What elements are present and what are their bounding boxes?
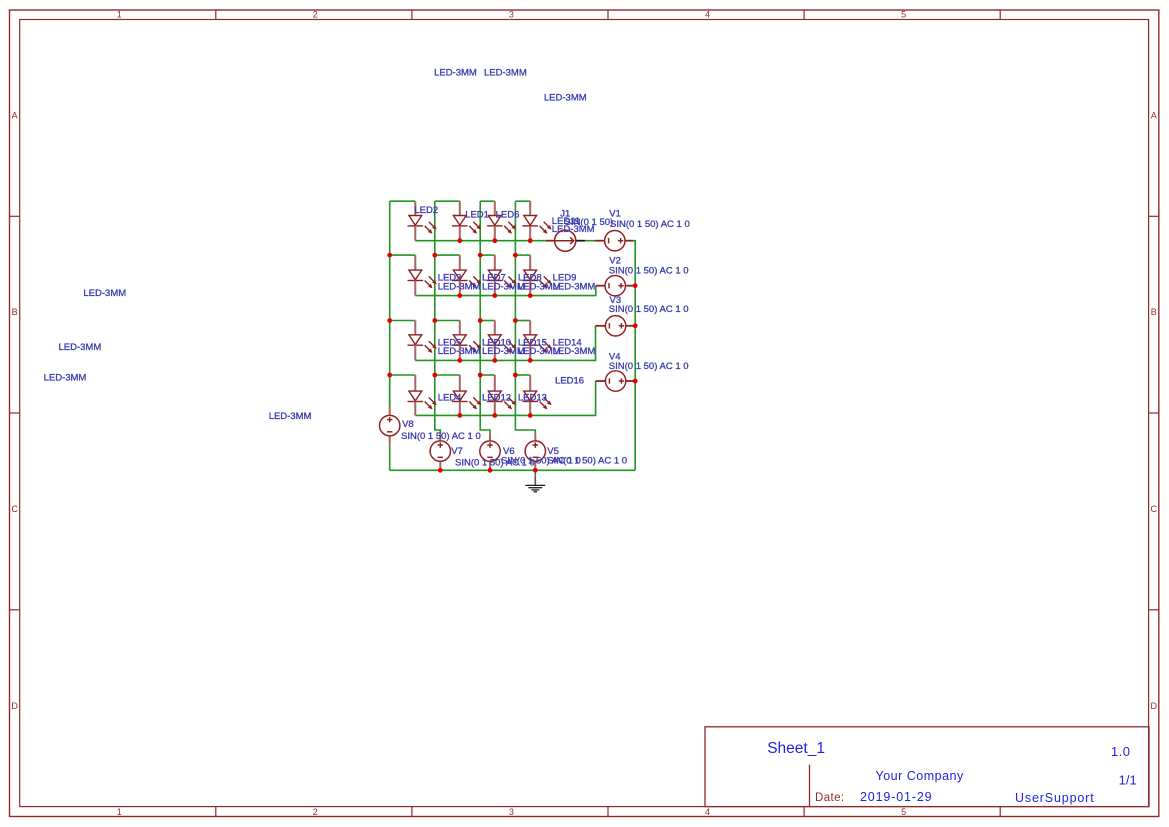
wire column bus 3 — [479, 201, 481, 375]
junction V4 right — [633, 379, 638, 384]
pin V6 top — [489, 434, 491, 441]
svg-text:SIN(0 1 50) AC 1 0: SIN(0 1 50) AC 1 0 — [609, 361, 689, 372]
wire top hook col 2 — [435, 200, 460, 202]
junction V5 bottom / ground — [533, 468, 538, 473]
pin V6 bottom — [489, 461, 491, 470]
svg-text:Your Company: Your Company — [876, 769, 964, 783]
pin V5 bottom — [534, 461, 536, 470]
LED LED8 — [487, 255, 516, 296]
junction V2 right — [633, 283, 638, 288]
pin V2 left — [596, 285, 605, 287]
voltage source V8 — [380, 415, 400, 435]
wire row 2 hook col 3 — [480, 254, 495, 256]
svg-text:LED1: LED1 — [465, 209, 489, 220]
wire row 2 cathode bus — [415, 286, 596, 296]
frame tick right 2 — [1149, 412, 1159, 414]
svg-text:Sheet_1: Sheet_1 — [767, 740, 825, 757]
svg-text:LED-3MM: LED-3MM — [438, 281, 481, 292]
junction row1 cathode col4 — [528, 238, 533, 243]
junction row4 cathode col4 — [528, 413, 533, 418]
svg-text:3: 3 — [509, 807, 514, 817]
pin J1 left — [546, 240, 555, 242]
LED LED16 — [522, 375, 551, 415]
voltage source V4 — [605, 371, 625, 391]
svg-text:C: C — [11, 504, 18, 514]
wire col1 to V8 — [389, 375, 391, 406]
svg-text:1: 1 — [117, 10, 122, 20]
svg-text:LED-3MM: LED-3MM — [83, 288, 126, 299]
svg-text:4: 4 — [705, 807, 710, 817]
pin V8 top — [389, 406, 391, 416]
wire column bus 4 — [514, 201, 516, 375]
wire top hook col 1 — [390, 200, 416, 202]
voltage source V7 — [430, 441, 450, 461]
LED LED1 — [452, 201, 481, 241]
junction V7 bottom — [438, 468, 443, 473]
wire right bus — [633, 241, 635, 471]
frame tick bottom 2 — [411, 807, 413, 817]
svg-text:SIN(0 1 50) AC 1 0: SIN(0 1 50) AC 1 0 — [610, 219, 690, 230]
LED LED4 — [408, 375, 437, 415]
LED LED10 — [452, 321, 481, 361]
svg-text:2: 2 — [313, 807, 318, 817]
LED LED2 — [408, 201, 437, 241]
LED LED12 — [452, 375, 481, 415]
junction row2 cathode col2 — [457, 293, 462, 298]
pin V7 top — [439, 434, 441, 441]
svg-text:A: A — [1151, 111, 1157, 121]
svg-text:2019-01-29: 2019-01-29 — [860, 790, 932, 804]
wire row 3 cathode bus — [415, 326, 595, 361]
frame tick left 2 — [10, 412, 20, 414]
svg-text:LED13: LED13 — [518, 393, 547, 404]
voltage source V5 — [525, 441, 545, 461]
svg-text:LED2: LED2 — [414, 205, 438, 216]
svg-text:B: B — [1151, 307, 1157, 317]
wire col2 to V7 — [435, 375, 441, 434]
wire row 3 hook col 3 — [480, 320, 495, 322]
pin V5 top — [534, 434, 536, 441]
junction row2 cathode col3 — [492, 293, 497, 298]
wire col4 to V5 — [515, 375, 535, 434]
junction col1 row3 hook — [387, 318, 392, 323]
svg-text:1.0: 1.0 — [1111, 744, 1131, 759]
svg-text:2: 2 — [313, 10, 318, 20]
frame tick left 1 — [10, 215, 20, 217]
frame tick top 3 — [607, 10, 609, 20]
svg-text:LED4: LED4 — [438, 393, 462, 404]
junction V3 right — [633, 323, 638, 328]
pin V4 right — [626, 380, 635, 382]
svg-text:LED-3MM: LED-3MM — [59, 342, 102, 353]
pin V7 bottom — [439, 461, 441, 470]
wire row 3 hook col 2 — [435, 320, 460, 322]
junction col3 row3 hook — [478, 318, 483, 323]
svg-text:LED-3MM: LED-3MM — [434, 68, 477, 79]
wire row 4 cathode bus — [415, 381, 595, 415]
pin V4 left — [596, 380, 606, 382]
junction col1 row4 hook — [387, 373, 392, 378]
LED LED6 — [487, 201, 516, 241]
junction col3 row4 hook — [478, 373, 483, 378]
voltage source V2 — [605, 276, 625, 296]
svg-text:V8: V8 — [402, 419, 414, 430]
svg-text:SIN(0 1 50) AC 1 0: SIN(0 1 50) AC 1 0 — [455, 457, 535, 468]
voltage source V1 — [605, 231, 625, 251]
voltage source V3 — [605, 316, 625, 336]
LED LED5 — [408, 321, 437, 361]
pin V2 right — [625, 285, 635, 287]
wire J1 to V1 — [585, 240, 595, 242]
frame tick right 3 — [1149, 609, 1159, 611]
frame tick top 4 — [803, 10, 805, 20]
voltage source V6 — [480, 441, 500, 461]
wire top hook col 3 — [480, 200, 495, 202]
wire row 2 hook col 1 — [390, 254, 416, 256]
LED LED15 — [487, 321, 516, 361]
wire row 4 hook col 2 — [435, 374, 460, 376]
pin V3 right — [626, 325, 635, 327]
LED LED13 — [487, 375, 516, 415]
wire row 4 hook col 3 — [480, 374, 495, 376]
svg-text:4: 4 — [705, 10, 710, 20]
svg-text:LED-3MM: LED-3MM — [544, 92, 587, 103]
svg-text:LED-3MM: LED-3MM — [552, 224, 595, 235]
svg-text:LED12: LED12 — [482, 393, 511, 404]
svg-text:LED-3MM: LED-3MM — [553, 346, 596, 357]
svg-text:D: D — [11, 701, 18, 711]
frame tick top 1 — [215, 10, 217, 20]
junction row2 cathode col4 — [528, 293, 533, 298]
LED LED11 — [522, 201, 551, 241]
svg-text:V7: V7 — [451, 446, 463, 457]
pin V3 left — [596, 325, 606, 327]
svg-text:D: D — [1150, 701, 1157, 711]
wire V8 to bottom bus — [389, 445, 391, 470]
junction row3 cathode col3 — [492, 358, 497, 363]
svg-text:3: 3 — [509, 10, 514, 20]
wire row 3 hook col 1 — [390, 320, 416, 322]
frame tick left 3 — [10, 609, 20, 611]
frame tick bottom 5 — [999, 807, 1001, 817]
wire col3 to V6 — [480, 375, 490, 434]
junction col2 row3 hook — [432, 318, 437, 323]
wire column bus 2 — [434, 201, 436, 375]
wire row 2 hook col 2 — [435, 254, 460, 256]
svg-text:LED-3MM: LED-3MM — [44, 373, 87, 384]
svg-text:UserSupport: UserSupport — [1015, 791, 1095, 805]
svg-text:1: 1 — [117, 807, 122, 817]
wire row 4 hook col 1 — [390, 374, 416, 376]
svg-text:SIN(0 1 50) AC 1 0: SIN(0 1 50) AC 1 0 — [609, 266, 689, 277]
ground — [525, 470, 545, 492]
junction row4 cathode col3 — [492, 413, 497, 418]
title block box — [705, 727, 1149, 807]
junction col2 row2 hook — [432, 253, 437, 258]
wire top hook col 4 — [515, 200, 530, 202]
junction row3 cathode col4 — [528, 358, 533, 363]
frame tick top 5 — [999, 10, 1001, 20]
junction col1 row2 hook — [387, 253, 392, 258]
pin J1 right — [576, 240, 585, 242]
pin V1 right — [625, 240, 633, 242]
junction col4 row2 hook — [513, 253, 518, 258]
LED LED9 — [522, 255, 551, 296]
wire bottom bus — [390, 469, 636, 471]
junction row3 cathode col2 — [457, 358, 462, 363]
LED LED3 — [408, 255, 437, 296]
junction row1 cathode col3 — [492, 238, 497, 243]
svg-text:C: C — [1150, 504, 1157, 514]
wire row 2 hook col 4 — [515, 254, 530, 256]
svg-text:LED-3MM: LED-3MM — [269, 411, 312, 422]
junction col2 row4 hook — [432, 373, 437, 378]
junction row4 cathode col2 — [457, 413, 462, 418]
frame tick top 2 — [411, 10, 413, 20]
svg-text:A: A — [12, 111, 18, 121]
junction col4 row4 hook — [513, 373, 518, 378]
junction col3 row2 hook — [478, 253, 483, 258]
junction V6 bottom — [488, 468, 493, 473]
svg-text:5: 5 — [901, 807, 906, 817]
LED LED14 — [522, 321, 551, 361]
frame tick bottom 4 — [803, 807, 805, 817]
svg-text:LED-3MM: LED-3MM — [438, 346, 481, 357]
svg-text:SIN(0 1 50) AC 1 0: SIN(0 1 50) AC 1 0 — [609, 304, 689, 315]
frame tick bottom 1 — [215, 807, 217, 817]
junction row1 cathode col2 — [457, 238, 462, 243]
LED LED7 — [452, 255, 481, 296]
wire column bus 1 — [389, 201, 391, 406]
svg-text:LED-3MM: LED-3MM — [484, 68, 527, 79]
title block divider — [809, 765, 811, 807]
pin V8 bottom — [389, 436, 391, 446]
svg-text:LED-3MM: LED-3MM — [553, 281, 596, 292]
svg-text:1/1: 1/1 — [1119, 773, 1137, 788]
svg-text:Date:: Date: — [815, 792, 845, 804]
frame tick bottom 3 — [607, 807, 609, 817]
current source J1 — [554, 230, 576, 251]
svg-text:LED16: LED16 — [555, 376, 584, 387]
wire row 4 hook col 4 — [515, 374, 530, 376]
svg-text:SIN(0 1 50) AC 1 0: SIN(0 1 50) AC 1 0 — [401, 431, 481, 442]
frame tick right 1 — [1149, 215, 1159, 217]
wire row 1 cathode bus — [415, 240, 546, 242]
svg-text:LED6: LED6 — [496, 209, 520, 220]
svg-text:5: 5 — [901, 10, 906, 20]
wire row 3 hook col 4 — [515, 320, 530, 322]
pin V1 left — [595, 240, 605, 242]
junction col4 row3 hook — [513, 318, 518, 323]
svg-text:B: B — [12, 307, 18, 317]
